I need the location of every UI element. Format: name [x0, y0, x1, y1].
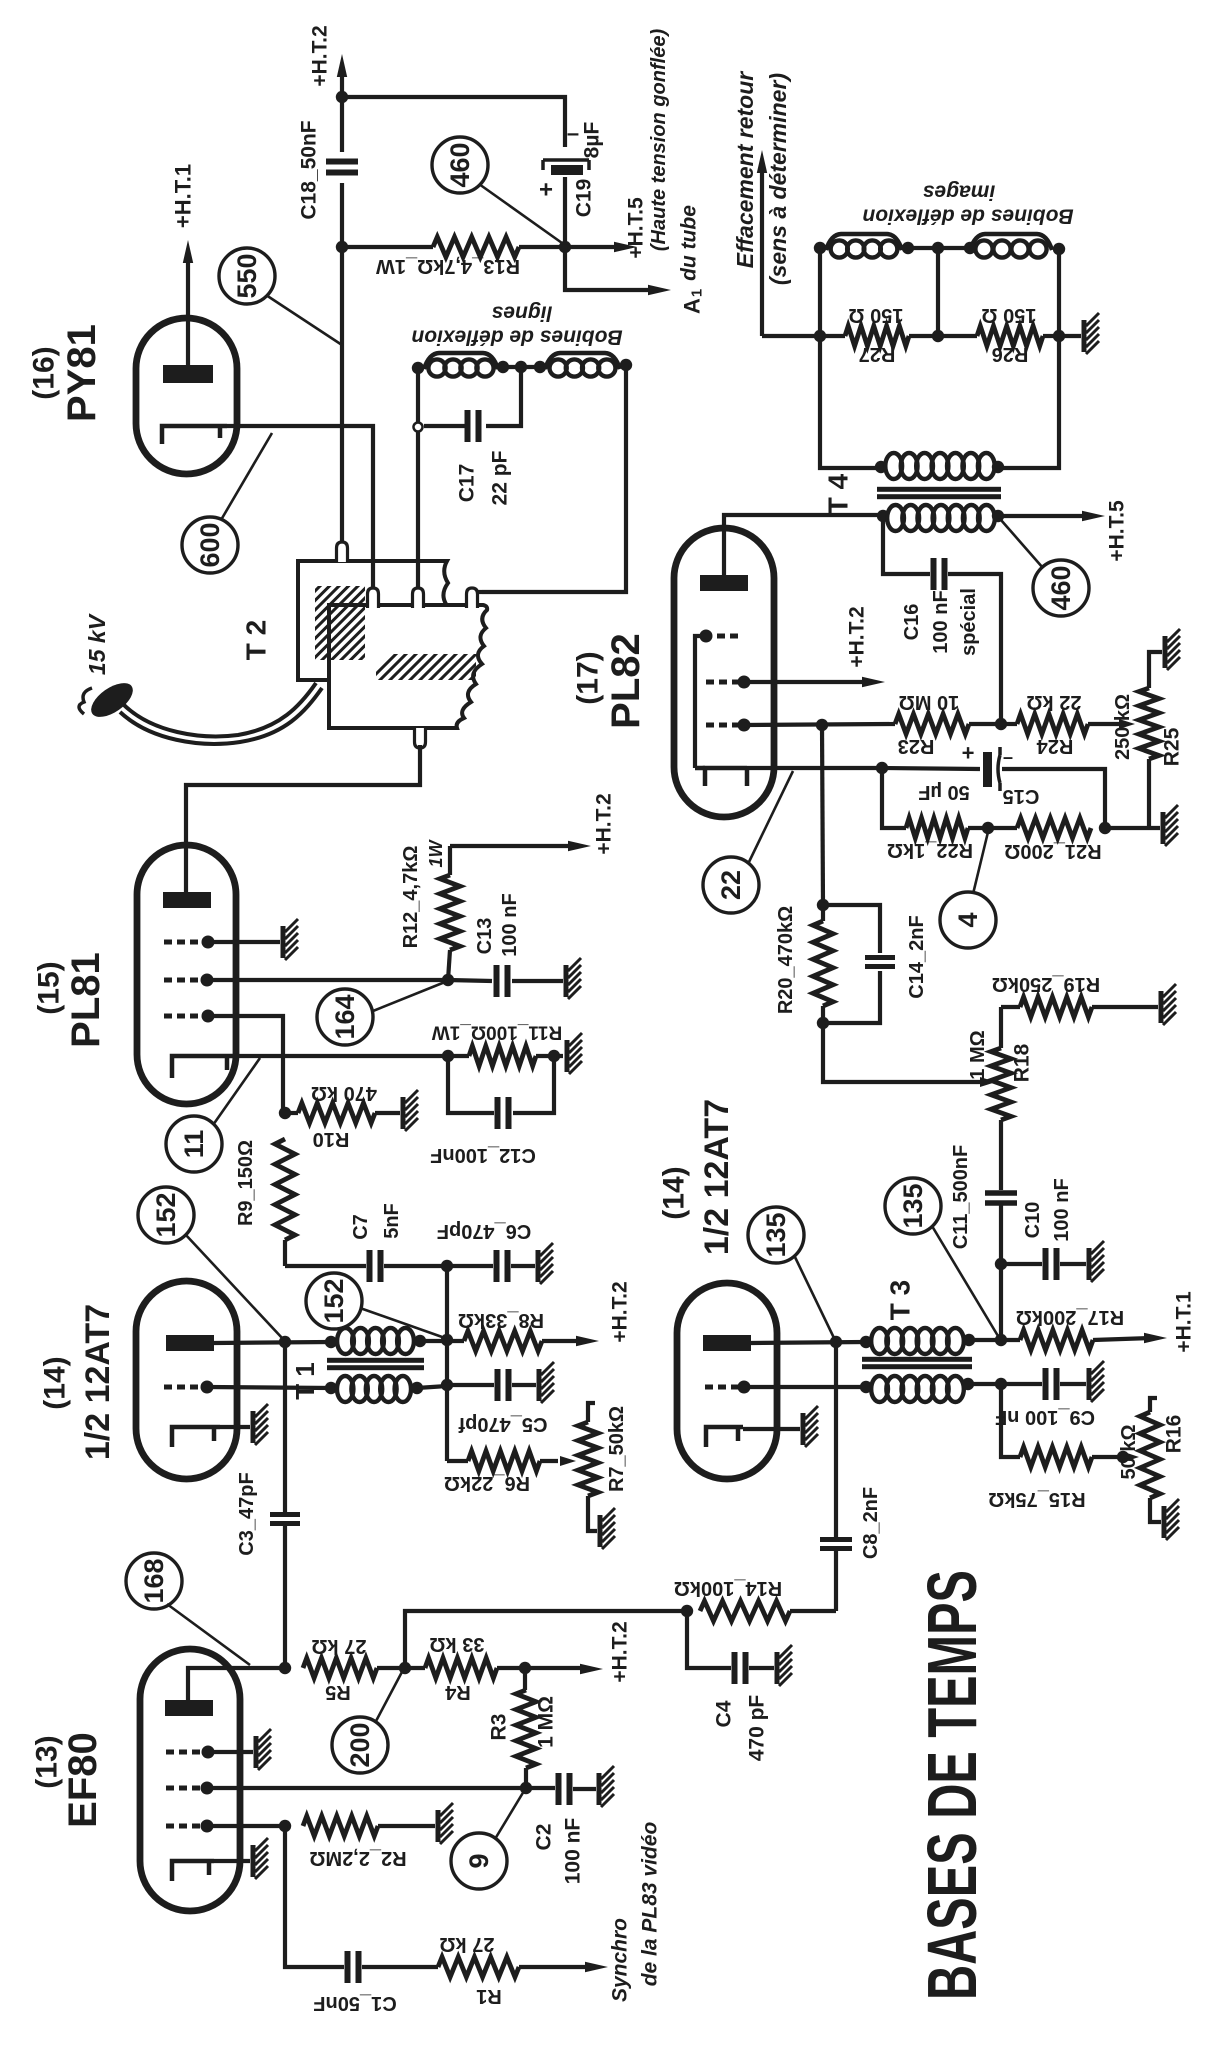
- svg-text:C12_100nF: C12_100nF: [430, 1144, 536, 1166]
- svg-text:C16: C16: [901, 604, 923, 641]
- svg-text:470 kΩ: 470 kΩ: [311, 1082, 377, 1104]
- transformer T1 core: [327, 1358, 424, 1370]
- svg-text:100 nF: 100 nF: [1051, 1178, 1073, 1241]
- svg-text:150 Ω: 150 Ω: [849, 304, 904, 326]
- resistor R12 4.7k 1W: [400, 838, 460, 980]
- pin T2-a: [337, 542, 348, 562]
- wire coil joints: [498, 365, 545, 369]
- leader 9 to R3 node: [495, 1791, 524, 1839]
- ground EF80 g1: [256, 1729, 271, 1770]
- svg-text:9: 9: [464, 1853, 494, 1868]
- wire coil left down to T2 pin: [416, 373, 420, 590]
- svg-text:460: 460: [445, 142, 475, 187]
- circle ref 135 b: [885, 1178, 941, 1234]
- leader 164 to R12 node: [373, 982, 445, 1011]
- wire C7 row: [285, 1264, 366, 1268]
- svg-text:+H.T.2: +H.T.2: [609, 1621, 632, 1682]
- wire cathode to ground: [743, 1427, 800, 1431]
- svg-text:150 Ω: 150 Ω: [982, 304, 1037, 326]
- leader 460 to C19 node: [479, 184, 562, 243]
- svg-text:R10: R10: [313, 1128, 350, 1150]
- arrow +H.T.2 (R8): [576, 1281, 632, 1346]
- transformer T3 secondary: [860, 1376, 974, 1402]
- wire g3 node down to R20: [822, 725, 823, 905]
- capacitor C5 470pF: [447, 1369, 547, 1435]
- ground C2: [599, 1766, 614, 1807]
- capacitor C12 100nF: [430, 1056, 554, 1166]
- grid PL81 g3: [164, 936, 215, 949]
- leader 550 to HT2 rail: [266, 295, 342, 345]
- wire EF80 anode to node: [188, 1668, 285, 1700]
- svg-text:550: 550: [232, 253, 262, 298]
- wire g3 to R23: [744, 724, 895, 725]
- capacitor C2 100nF: [526, 1773, 596, 1884]
- svg-text:100 nF: 100 nF: [562, 1818, 585, 1885]
- wire T2 bottom to PL81 anode: [186, 745, 420, 893]
- svg-text:R22_1kΩ: R22_1kΩ: [887, 839, 973, 861]
- svg-text:spécial: spécial: [958, 588, 980, 656]
- svg-text:+H.T.2: +H.T.2: [593, 793, 616, 854]
- transformer T4 primary: [875, 453, 1004, 479]
- ground C10: [1089, 1241, 1104, 1282]
- arrow +H.T.1 (PY81 anode): [171, 164, 196, 263]
- label T4: [823, 473, 854, 514]
- svg-text:+H.T.2: +H.T.2: [309, 25, 332, 86]
- ground R11: [567, 1033, 582, 1074]
- wire R26 to ground: [1059, 334, 1081, 338]
- node junction R5/R4: [399, 1662, 411, 1674]
- svg-text:135: 135: [898, 1183, 928, 1228]
- label (13) EF80: [31, 1732, 106, 1828]
- svg-text:R27: R27: [859, 343, 896, 365]
- svg-text:(sens à déterminer): (sens à déterminer): [765, 73, 791, 285]
- node coil ends: [412, 361, 546, 374]
- node junction R13/C19/HT5: [559, 241, 571, 253]
- svg-text:R26: R26: [992, 343, 1029, 365]
- resistor R2 2.2M: [303, 1816, 435, 1869]
- wire coil join b: [938, 246, 970, 250]
- svg-text:PL82: PL82: [604, 633, 648, 729]
- svg-text:(16): (16): [28, 346, 61, 399]
- cathode PY81: [162, 426, 227, 444]
- capacitor C18: [298, 120, 359, 219]
- wire C17 branch mid: [486, 367, 521, 426]
- leader 11 to cathode: [213, 1058, 260, 1125]
- svg-text:BASES DE TEMPS: BASES DE TEMPS: [913, 1570, 991, 2000]
- wire T3 primary to R17: [969, 1338, 1020, 1342]
- svg-text:R19_250kΩ: R19_250kΩ: [992, 973, 1100, 995]
- wire cathode to ground: [220, 1425, 250, 1429]
- svg-text:10 MΩ: 10 MΩ: [899, 691, 960, 713]
- svg-text:C11_500nF: C11_500nF: [950, 1145, 972, 1250]
- transformer T3 core: [862, 1357, 972, 1369]
- capacitor C8 2nF: [820, 1342, 882, 1611]
- pin T2-b: [368, 588, 379, 608]
- svg-text:470 pF: 470 pF: [746, 1695, 769, 1762]
- coil deflection images L-D: [964, 234, 1065, 258]
- wire grid column x447: [445, 1266, 449, 1340]
- wire effacement to R27: [762, 334, 820, 338]
- leader 200 to R5/R4 node: [375, 1670, 403, 1723]
- node junction R15/R16: [1117, 1451, 1129, 1463]
- node junction R11 left: [442, 1050, 454, 1062]
- pin T2-d: [467, 588, 483, 608]
- arrow synchro output: [585, 1822, 662, 2002]
- node junction R4/R3: [519, 1662, 531, 1674]
- svg-text:C9_100 nF: C9_100 nF: [995, 1406, 1095, 1428]
- wire g1 down: [208, 1016, 283, 1113]
- tube V17 PL82 envelope: [674, 528, 774, 817]
- svg-text:22 kΩ: 22 kΩ: [1027, 691, 1082, 713]
- svg-text:EF80: EF80: [61, 1732, 105, 1828]
- node junction R3/C2: [520, 1782, 532, 1794]
- svg-text:R15_75kΩ: R15_75kΩ: [988, 1488, 1085, 1510]
- svg-text:C1_50nF: C1_50nF: [313, 1992, 396, 2014]
- svg-text:R12_4,7kΩ: R12_4,7kΩ: [400, 846, 422, 949]
- svg-text:27 kΩ: 27 kΩ: [312, 1635, 367, 1657]
- arrow +H.T.2 (PL81 screen): [450, 793, 616, 854]
- wire R21 to ground: [1105, 826, 1160, 830]
- svg-text:1 MΩ: 1 MΩ: [535, 1696, 558, 1748]
- arrow +H.T.1 (R17): [1144, 1291, 1196, 1353]
- tube V15 PL81 envelope: [137, 845, 236, 1104]
- wire PL81 cathode row: [233, 1054, 448, 1058]
- svg-text:R25: R25: [1161, 727, 1184, 766]
- circle ref 164: [317, 989, 373, 1045]
- grid PL81 g2: [164, 974, 214, 987]
- label (16) PY81: [28, 324, 105, 422]
- wire coil left down: [818, 248, 822, 336]
- arrow +H.T.2 (R4): [525, 1621, 632, 1682]
- tube V16 PY81 envelope: [136, 318, 237, 474]
- wire C9 node down to R15: [1001, 1384, 1020, 1457]
- circle ref 9: [451, 1833, 507, 1889]
- wire g2 screen row: [207, 978, 448, 982]
- arrow Effacement retour: [732, 71, 791, 336]
- grid EF80 g1: [166, 1746, 215, 1759]
- leader 22 to cathode: [748, 771, 793, 864]
- node junction R14 left: [681, 1605, 693, 1617]
- svg-text:C15: C15: [1003, 785, 1040, 807]
- ground C13: [566, 958, 581, 999]
- arrow +H.T.5 output: [565, 197, 648, 259]
- svg-text:R7_50kΩ: R7_50kΩ: [606, 1406, 628, 1492]
- ground R7: [600, 1508, 615, 1549]
- ground R21: [1163, 805, 1178, 846]
- potentiometer R18 1M: [967, 1007, 1034, 1190]
- title BASES DE TEMPS: [913, 1570, 991, 2000]
- svg-text:A: A: [680, 298, 705, 314]
- cathode 12AT7b: [706, 1427, 743, 1447]
- node junction coils mid: [932, 242, 944, 254]
- svg-text:+H.T.5: +H.T.5: [1106, 500, 1129, 562]
- svg-text:C7: C7: [350, 1214, 372, 1240]
- svg-text:C13: C13: [474, 918, 496, 955]
- node junction R13 left: [336, 241, 348, 253]
- resistor R13 4.7k 1W: [342, 237, 565, 277]
- svg-text:+H.T.1: +H.T.1: [1173, 1291, 1196, 1353]
- resistor R23 10M: [895, 691, 1001, 757]
- grid 12AT7a: [164, 1381, 214, 1394]
- circle ref 11: [166, 1116, 222, 1172]
- leader 600 to cathode wire: [221, 433, 272, 520]
- svg-text:R14_100kΩ: R14_100kΩ: [674, 1577, 782, 1599]
- arrow +H.T.2 (PL82 screen): [744, 606, 885, 687]
- arrow R18 wiper: [823, 1023, 996, 1087]
- leader 135a to anode node: [794, 1255, 834, 1338]
- leader 135b to R17 node: [932, 1226, 998, 1336]
- resistor R22 1k: [887, 818, 1017, 861]
- capacitor C11 500nF: [950, 1145, 1017, 1264]
- tube V14b 12AT7 envelope: [677, 1283, 777, 1479]
- ground R16: [1164, 1499, 1179, 1540]
- coil deflection lignes L-A: [424, 353, 498, 377]
- resistor R10 470k: [285, 1082, 400, 1150]
- svg-text:(14): (14): [658, 1166, 691, 1219]
- grid PL82 g3: [706, 719, 751, 732]
- svg-text:1/2 12AT7: 1/2 12AT7: [698, 1099, 736, 1255]
- capacitor C3 47pF: [236, 1342, 300, 1668]
- svg-text:R8_33kΩ: R8_33kΩ: [458, 1309, 544, 1331]
- wire anode row to T3: [751, 1342, 866, 1343]
- svg-text:du tube: du tube: [678, 205, 701, 281]
- svg-text:+H.T.1: +H.T.1: [171, 164, 196, 228]
- anode 12AT7b: [703, 1335, 751, 1351]
- circle ref 22: [703, 857, 759, 913]
- svg-text:11: 11: [179, 1130, 209, 1159]
- circle ref 152 a: [138, 1187, 194, 1243]
- circle ref 168: [126, 1553, 182, 1609]
- arrow +H.T.2 (top): [309, 25, 348, 86]
- circle ref 200: [332, 1717, 388, 1773]
- transformer T2 front box: [329, 605, 487, 728]
- svg-text:images: images: [923, 181, 995, 204]
- resistor R14 100k: [674, 1577, 836, 1621]
- svg-text:C18_50nF: C18_50nF: [298, 120, 321, 219]
- wire T4 primary right: [998, 336, 1059, 468]
- resistor R26 150ohm: [938, 304, 1059, 365]
- potentiometer R7 50k: [578, 1403, 628, 1531]
- label (14) 1/2 12AT7 (a): [39, 1304, 118, 1460]
- svg-text:PL81: PL81: [64, 952, 108, 1048]
- ground 12AT7b cathode: [803, 1406, 818, 1447]
- svg-text:(17): (17): [572, 651, 605, 704]
- node junction g3/R20: [816, 719, 828, 731]
- transformer T2 back box: [298, 561, 448, 680]
- resistor R6 22k: [444, 1451, 558, 1494]
- arrow R25 wiper: [1119, 719, 1135, 729]
- svg-text:R11_100Ω_1W: R11_100Ω_1W: [432, 1022, 562, 1043]
- transformer T3 primary: [860, 1328, 975, 1354]
- svg-text:C14_2nF: C14_2nF: [906, 915, 928, 998]
- wire g3 to R2: [207, 1824, 285, 1828]
- wire C10 node down to R17 row: [999, 1264, 1003, 1340]
- resistor R8 33k: [420, 1309, 583, 1351]
- node junction R22/R21: [982, 822, 994, 834]
- node junction R17 left: [995, 1334, 1007, 1346]
- node junction R11 right: [548, 1050, 560, 1062]
- wire x447 R8 to C5: [445, 1340, 449, 1385]
- svg-text:152: 152: [319, 1278, 349, 1323]
- circle ref 135 a: [748, 1207, 804, 1263]
- wire top link to C19: [342, 97, 565, 147]
- ground R25 top: [1165, 629, 1180, 670]
- wire +H.T.2 rail to T2 pin (vertical): [340, 70, 344, 544]
- svg-text:1 MΩ: 1 MΩ: [967, 1030, 989, 1079]
- wire T1 sec to C5 node: [417, 1386, 447, 1388]
- transformer T4 secondary: [877, 505, 1004, 531]
- node junction R21 right: [1099, 822, 1111, 834]
- cathode 12AT7a: [172, 1427, 220, 1447]
- svg-text:Bobines de déflexion: Bobines de déflexion: [862, 205, 1073, 228]
- svg-text:4: 4: [953, 912, 983, 927]
- arrow R7 wiper: [560, 1456, 576, 1466]
- svg-text:C17: C17: [456, 464, 479, 503]
- svg-text:(13): (13): [31, 1735, 64, 1788]
- circle ref 550: [219, 248, 275, 304]
- node junction C18/C19 top: [336, 91, 348, 103]
- node junction R12/C13: [442, 974, 454, 986]
- cathode PL81: [172, 1056, 233, 1078]
- svg-text:–: –: [567, 121, 579, 146]
- label Haute tension gonflee: [648, 29, 670, 252]
- leader 460b to T4: [1001, 520, 1043, 568]
- svg-text:+H.T.2: +H.T.2: [846, 606, 869, 667]
- node junction EF80 anode/C3: [279, 1662, 291, 1674]
- wire C19 to HT5 node: [563, 177, 567, 247]
- resistor R1 27k: [438, 1933, 592, 2007]
- node junction R8 left: [441, 1334, 453, 1346]
- svg-text:250 kΩ: 250 kΩ: [1112, 694, 1134, 760]
- svg-text:200: 200: [345, 1722, 375, 1767]
- resistor R15 75k: [988, 1447, 1120, 1510]
- wire g1 down to cathode: [695, 636, 706, 768]
- wire C1 column: [285, 1826, 344, 1967]
- svg-text:–: –: [1003, 747, 1013, 767]
- svg-text:C19: C19: [573, 179, 596, 218]
- wire anode row to T1: [214, 1342, 331, 1343]
- svg-text:460: 460: [1046, 565, 1076, 610]
- potentiometer R25 250k: [1112, 652, 1184, 828]
- svg-text:135: 135: [761, 1212, 791, 1257]
- node junction R27/R26: [932, 330, 944, 342]
- transformer T4 core: [877, 487, 1001, 499]
- resistor R19 250k: [992, 973, 1158, 1017]
- svg-text:100 nF: 100 nF: [499, 893, 521, 956]
- capacitor C10 100nF: [1001, 1178, 1086, 1280]
- circle ref 600: [182, 517, 238, 573]
- resistor R20 470k: [775, 906, 833, 1023]
- svg-text:(14): (14): [39, 1356, 72, 1409]
- svg-text:Effacement retour: Effacement retour: [732, 71, 758, 268]
- leader 4 to R22/R21 node: [973, 832, 988, 894]
- ground C5: [539, 1362, 554, 1403]
- label Bobines de deflexion lignes: [411, 302, 622, 349]
- transformer T2 hatch band: [362, 648, 512, 688]
- svg-text:C3_47pF: C3_47pF: [236, 1472, 258, 1555]
- node junction anode/C8: [830, 1336, 842, 1348]
- ground R10: [403, 1090, 418, 1131]
- svg-text:C2: C2: [533, 1824, 556, 1851]
- ground 12AT7a cathode: [253, 1404, 268, 1445]
- leader 152b to R8 node: [360, 1308, 445, 1338]
- ground EF80 cathode: [253, 1838, 268, 1879]
- node junction C9: [995, 1378, 1007, 1390]
- svg-text:+: +: [539, 177, 553, 204]
- node junction R27 left: [814, 330, 826, 342]
- circle ref 460 (C19): [432, 137, 488, 193]
- leader 152a to anode node: [185, 1234, 283, 1339]
- transformer T1 primary: [325, 1328, 426, 1354]
- svg-text:R3: R3: [488, 1714, 511, 1741]
- node junction R20 bottom: [817, 1017, 829, 1029]
- label (17) PL82: [572, 633, 649, 729]
- svg-text:R6_22kΩ: R6_22kΩ: [444, 1472, 530, 1494]
- circle ref 4: [940, 892, 996, 948]
- svg-text:de la PL83 vidéo: de la PL83 vidéo: [639, 1822, 662, 1987]
- node junction C11/C10: [995, 1258, 1007, 1270]
- svg-text:+: +: [962, 741, 975, 766]
- tube V13 EF80 envelope: [140, 1649, 240, 1911]
- svg-text:8µF: 8µF: [581, 122, 604, 159]
- svg-text:50 kΩ: 50 kΩ: [1118, 1425, 1140, 1480]
- wire coil mid down: [936, 248, 940, 336]
- svg-text:R9_150Ω: R9_150Ω: [235, 1140, 257, 1226]
- node coil right end: [620, 359, 632, 371]
- node junction R23/R24/C16: [995, 718, 1007, 730]
- svg-text:+H.T.2: +H.T.2: [609, 1281, 632, 1342]
- resistor R21 200ohm: [1004, 818, 1101, 862]
- svg-text:22: 22: [716, 870, 746, 900]
- cathode PL82: [695, 768, 747, 786]
- svg-text:27 kΩ: 27 kΩ: [440, 1933, 495, 1955]
- svg-text:100 nF: 100 nF: [930, 590, 952, 653]
- pin T2-bottom: [415, 728, 426, 748]
- resistor R4 33k: [377, 1633, 525, 1703]
- node junction C7/C6/R8: [441, 1260, 453, 1272]
- svg-text:R23: R23: [898, 735, 935, 757]
- potentiometer R16 50k: [1118, 1398, 1186, 1522]
- resistor R3 1M: [488, 1668, 558, 1788]
- wire PL82 anode to T4: [724, 515, 883, 575]
- label T2: [241, 620, 272, 660]
- svg-text:152: 152: [151, 1192, 181, 1237]
- svg-text:5nF: 5nF: [381, 1203, 403, 1239]
- svg-text:C6_470pF: C6_470pF: [437, 1220, 532, 1242]
- svg-text:R24: R24: [1036, 735, 1074, 757]
- node junction cathode: [876, 762, 888, 774]
- node junction R26 right: [1053, 330, 1065, 342]
- svg-text:22 pF: 22 pF: [489, 450, 512, 505]
- label (15) PL81: [33, 952, 109, 1048]
- svg-text:50 µF: 50 µF: [918, 781, 970, 803]
- anode PL81: [163, 892, 211, 908]
- circle ref 460 b: [1033, 560, 1089, 616]
- ground C9: [1089, 1361, 1104, 1402]
- svg-text:R18: R18: [1011, 1043, 1034, 1082]
- svg-text:T 4: T 4: [823, 473, 854, 514]
- svg-text:T 3: T 3: [885, 1280, 916, 1320]
- wire T4 primary left: [820, 336, 881, 468]
- svg-text:164: 164: [330, 994, 360, 1039]
- wire C7 to C6: [384, 1264, 493, 1268]
- svg-text:168: 168: [139, 1558, 169, 1603]
- wire T3 sec to C9 node: [968, 1382, 1001, 1386]
- grid PL82 g1: [700, 630, 741, 643]
- anode PL82: [700, 575, 748, 591]
- svg-text:Synchro: Synchro: [609, 1918, 632, 2002]
- anode EF80: [165, 1700, 213, 1716]
